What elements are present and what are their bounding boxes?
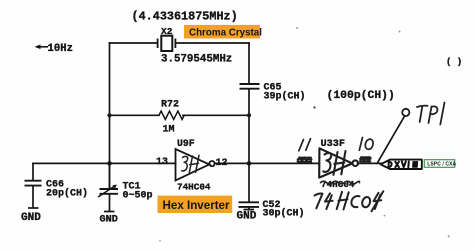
svg-text:U9F: U9F bbox=[177, 138, 195, 149]
svg-text:GND: GND bbox=[21, 212, 41, 224]
svg-text:GND: GND bbox=[100, 215, 118, 226]
svg-text:( ): ( ) bbox=[446, 57, 462, 67]
svg-text:Hex Inverter: Hex Inverter bbox=[163, 199, 231, 212]
svg-text:20p(CH): 20p(CH) bbox=[46, 188, 88, 200]
svg-text:74HC04: 74HC04 bbox=[177, 182, 211, 193]
svg-text:74HC04: 74HC04 bbox=[321, 179, 355, 190]
svg-text:R72: R72 bbox=[161, 99, 179, 110]
svg-text:39p(CH): 39p(CH) bbox=[264, 90, 306, 102]
svg-text:13: 13 bbox=[156, 157, 168, 168]
svg-text:Chroma Crystal: Chroma Crystal bbox=[189, 27, 262, 38]
svg-text:(4.43361875MHz): (4.43361875MHz) bbox=[132, 10, 238, 24]
svg-text:GND: GND bbox=[237, 211, 257, 223]
svg-text:10Hz: 10Hz bbox=[48, 43, 73, 55]
svg-text:LSPC / CXA: LSPC / CXA bbox=[427, 162, 456, 168]
svg-text:(100p(CH)): (100p(CH)) bbox=[327, 90, 395, 102]
svg-text:U33F: U33F bbox=[321, 139, 345, 150]
svg-text:3.579545MHz: 3.579545MHz bbox=[161, 53, 232, 65]
svg-text:X2: X2 bbox=[161, 26, 173, 37]
svg-text:12: 12 bbox=[216, 158, 228, 169]
svg-text:30p(CH): 30p(CH) bbox=[263, 207, 305, 219]
svg-text:0~50p: 0~50p bbox=[123, 191, 153, 202]
svg-text:1M: 1M bbox=[163, 124, 175, 135]
